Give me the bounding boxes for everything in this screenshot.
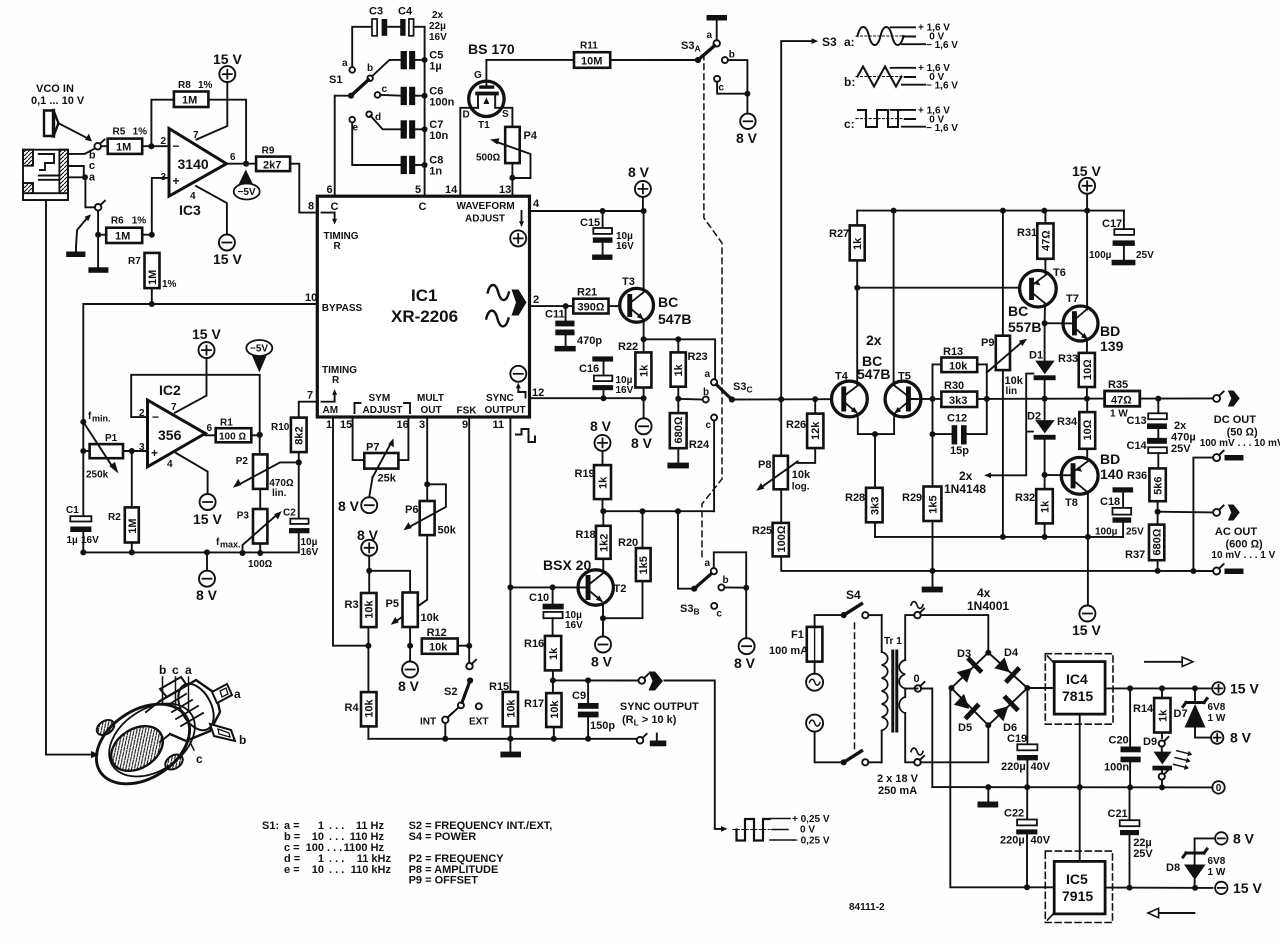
svg-text:c: c: [716, 609, 722, 620]
wire R23 to S3C contact b: [678, 398, 702, 401]
svg-text:1n: 1n: [429, 166, 442, 178]
svg-text:(600 Ω): (600 Ω): [1226, 539, 1264, 551]
svg-text:R15: R15: [489, 681, 509, 693]
svg-text:15 V: 15 V: [193, 511, 222, 527]
terminal ac2: [911, 748, 924, 765]
svg-text:WAVEFORM: WAVEFORM: [457, 201, 515, 212]
-5V marker (IC3): [234, 170, 260, 200]
resistor R9 2k7: [256, 146, 290, 172]
svg-text:557B: 557B: [1008, 319, 1041, 335]
svg-text:16V: 16V: [565, 620, 583, 631]
svg-text:25k: 25k: [378, 473, 397, 485]
svg-text:C17: C17: [1102, 218, 1122, 230]
svg-text:R8: R8: [178, 80, 191, 91]
DC OUT arrow glyph: [1228, 391, 1240, 407]
svg-text:BS 170: BS 170: [468, 41, 515, 57]
resistor R3 10k: [345, 593, 377, 649]
terminal +8V: [1211, 730, 1252, 746]
resistor R32 1k: [1015, 475, 1053, 540]
svg-text:356: 356: [158, 427, 182, 443]
supply -8V (R22): [631, 398, 653, 451]
svg-text:a:: a:: [844, 35, 855, 49]
arrow right (supply): [1145, 657, 1193, 666]
svg-text:1: 1: [326, 419, 332, 431]
wire P1 left: [80, 422, 89, 516]
svg-text:T4: T4: [835, 371, 849, 383]
supply +15V (IC2): [175, 326, 222, 413]
jack connector drawing flange: [82, 688, 209, 801]
svg-text:D5: D5: [958, 722, 972, 734]
svg-text:BD: BD: [1100, 323, 1120, 339]
wire R6 to pin3 node: [142, 178, 169, 238]
svg-text:S1:: S1:: [262, 820, 279, 832]
S1 contact d: [366, 111, 381, 123]
AC OUT arrow glyph: [1228, 505, 1240, 521]
switch S3B: [678, 511, 749, 619]
svg-text:4: 4: [533, 198, 540, 210]
S1 label: [329, 74, 342, 86]
svg-text:R16: R16: [524, 638, 544, 650]
svg-text:6: 6: [327, 184, 333, 196]
svg-text:100 Ω: 100 Ω: [219, 432, 246, 443]
svg-text:c:: c:: [844, 117, 855, 131]
svg-text:FSK: FSK: [457, 406, 478, 417]
fuse F1 100mA: [769, 615, 844, 674]
svg-text:a: a: [185, 663, 192, 677]
supply -15V (IC3): [213, 235, 242, 268]
leader arrow to contact b: [58, 123, 92, 142]
svg-text:1%: 1%: [133, 127, 148, 138]
S1 contact e: [349, 117, 358, 134]
wire IC1 pin2: [530, 303, 574, 309]
supply +15V (IC3): [197, 51, 243, 140]
svg-text:1 W: 1 W: [1208, 713, 1226, 724]
resistor R24 680ohm: [667, 399, 710, 469]
svg-text:1M: 1M: [147, 270, 159, 285]
pot P3 100ohm: [216, 489, 282, 570]
svg-text:1M: 1M: [116, 141, 131, 153]
svg-text:T3: T3: [622, 276, 635, 288]
wire C22 top to 0V rail: [1026, 787, 1028, 819]
wire to P5 top: [369, 571, 410, 593]
svg-text:lin.: lin.: [272, 488, 287, 499]
resistor R20 1k5: [603, 511, 651, 618]
svg-text:D: D: [463, 110, 470, 121]
svg-text:. . .: . . .: [329, 864, 344, 876]
svg-text:C4: C4: [398, 6, 413, 18]
svg-text:− 1,6 V: − 1,6 V: [926, 81, 958, 92]
svg-text:c: c: [89, 160, 95, 172]
svg-text:OUT: OUT: [421, 405, 442, 416]
resistor R25 100ohm: [752, 523, 933, 571]
svg-text:IC3: IC3: [179, 202, 201, 218]
svg-text:C20: C20: [1109, 735, 1129, 747]
svg-text:−5V: −5V: [250, 344, 268, 355]
S3A contact c: [714, 76, 750, 97]
label 2x470u25V: [1171, 420, 1196, 455]
svg-text:15 V: 15 V: [213, 251, 242, 267]
svg-text:100n: 100n: [1104, 762, 1129, 774]
svg-text:D3: D3: [957, 648, 971, 660]
jack wire b: [68, 149, 95, 154]
IC1 timing R arrow bottom: [322, 365, 358, 402]
svg-text:1k: 1k: [852, 237, 864, 250]
supply +15V (amp): [1072, 163, 1101, 211]
svg-text:b:: b:: [844, 75, 855, 89]
svg-text:C22: C22: [1004, 808, 1024, 820]
svg-text:100n: 100n: [429, 97, 454, 109]
svg-text:1k: 1k: [548, 647, 560, 660]
AC OUT terminal: [1213, 506, 1224, 516]
wire T7 collector: [1086, 211, 1088, 310]
capacitor C19 220u40V: [1001, 688, 1051, 787]
svg-text:P6: P6: [405, 504, 418, 516]
wire T3 emitter node: [641, 320, 716, 379]
svg-text:IC1: IC1: [411, 286, 437, 305]
svg-text:1%: 1%: [132, 216, 147, 227]
wire T5 collector: [891, 208, 897, 385]
wire to waveform legend: [781, 38, 818, 399]
wire jack to connector drawing: [45, 200, 47, 755]
IC1 pin right numbers: [532, 198, 544, 399]
svg-text:R18: R18: [576, 529, 596, 541]
svg-text:min.: min.: [92, 414, 111, 424]
IC2 feedback wire: [131, 375, 260, 435]
svg-text:G: G: [474, 70, 482, 81]
regulator IC5 7915: [1045, 851, 1112, 922]
svg-text:C10: C10: [529, 592, 549, 604]
switch S2 INT/EXT: [420, 646, 488, 742]
svg-text:P1: P1: [105, 433, 118, 444]
svg-text:47Ω: 47Ω: [1040, 230, 1052, 251]
svg-text:C: C: [331, 201, 339, 213]
resistor R8 1M: [174, 80, 213, 107]
svg-text:a: a: [89, 171, 96, 183]
svg-text:R10: R10: [271, 422, 290, 433]
svg-text:R: R: [332, 375, 340, 386]
jack connector pin labels: [159, 663, 203, 766]
svg-text:Tr 1: Tr 1: [884, 636, 902, 647]
svg-text:R30: R30: [944, 380, 964, 392]
ground rail (sync area): [368, 738, 636, 740]
svg-text:S3: S3: [822, 35, 837, 49]
capacitor C1 1u16V: [66, 505, 99, 552]
svg-text:8 V: 8 V: [1230, 730, 1252, 746]
DC OUT labels: [1200, 414, 1280, 449]
svg-text:SYNC: SYNC: [486, 393, 514, 404]
arrow to connector drawing: [46, 751, 99, 758]
svg-text:2x: 2x: [432, 10, 444, 21]
label 84111-2: [849, 902, 885, 913]
capacitor C20 100n: [1104, 688, 1141, 787]
jack wire c: [68, 166, 84, 177]
svg-text:16: 16: [397, 419, 409, 431]
IC1 bottom pin numbers: [326, 419, 504, 431]
supply -8V (S3A): [736, 94, 758, 146]
svg-text:1µ: 1µ: [67, 535, 79, 546]
IC1 timing R arrow top: [322, 213, 359, 252]
IC1 output arrow glyph: [512, 290, 527, 316]
svg-text:ADJUST: ADJUST: [363, 405, 403, 416]
svg-text:R33: R33: [1058, 353, 1078, 365]
svg-text:S4: S4: [846, 588, 861, 602]
svg-text:8 V: 8 V: [398, 678, 420, 694]
svg-text:10M: 10M: [581, 56, 602, 68]
svg-text:+: +: [173, 174, 180, 188]
svg-text:−: −: [173, 139, 180, 153]
svg-text:250 mA: 250 mA: [878, 785, 917, 797]
resistor R31 47ohm: [1017, 211, 1054, 274]
svg-text:1 W: 1 W: [1208, 867, 1226, 878]
capacitor C6 100n: [380, 86, 454, 109]
dashed mechanical link S3: [702, 54, 722, 558]
resistor R4 10k: [345, 646, 377, 739]
svg-text:R1: R1: [220, 418, 233, 429]
IC1 XR-2206 box: [317, 196, 529, 417]
wire transformer to bridge top: [921, 615, 989, 653]
svg-text:2x: 2x: [1174, 420, 1187, 432]
wire T8 base: [1045, 474, 1071, 476]
svg-text:P4: P4: [524, 130, 538, 142]
svg-text:C18: C18: [1100, 496, 1120, 508]
svg-text:S2: S2: [444, 686, 457, 698]
transistor T2 BSX20: [543, 557, 626, 605]
svg-text:R22: R22: [618, 341, 638, 353]
jack socket (schematic): [23, 150, 68, 200]
svg-text:2: 2: [533, 294, 539, 306]
svg-text:TIMING: TIMING: [324, 231, 359, 242]
IC1 plus circle pin4: [510, 211, 526, 246]
svg-text:16V: 16V: [81, 535, 99, 546]
resistor R29 1k5: [902, 399, 941, 574]
svg-text:11: 11: [493, 419, 505, 431]
svg-text:P8: P8: [758, 459, 771, 471]
svg-text:4: 4: [167, 459, 173, 470]
diode D6: [991, 695, 1019, 723]
sync output terminal: [639, 674, 649, 684]
svg-text:40V: 40V: [1031, 761, 1051, 773]
IC1 bottom labels: [323, 393, 526, 417]
0V rail: [932, 784, 1212, 790]
svg-text:−: −: [152, 410, 159, 424]
svg-text:IC4: IC4: [1066, 671, 1088, 687]
svg-text:SYM: SYM: [369, 393, 391, 404]
svg-text:110 kHz: 110 kHz: [351, 864, 392, 876]
svg-text:P7: P7: [366, 442, 379, 454]
wire sync to legend: [665, 681, 728, 832]
wire C rail to IC1 pin5: [424, 27, 426, 196]
contact a tick circle: [95, 201, 105, 211]
svg-text:100 mA: 100 mA: [769, 645, 808, 657]
svg-text:C3: C3: [369, 6, 383, 18]
resistor R19 1k: [575, 451, 612, 511]
transistor T6 BC557B: [1008, 267, 1066, 335]
svg-text:84111-2: 84111-2: [849, 902, 885, 913]
resistor R15 10k: [489, 681, 518, 742]
svg-text:R19: R19: [575, 468, 595, 480]
svg-text:T5: T5: [898, 371, 911, 383]
S1 contact c: [375, 84, 388, 98]
wire bridge plus to IC4: [1027, 687, 1054, 689]
transistor T3 BC547B: [620, 276, 692, 327]
svg-text:AM: AM: [323, 405, 339, 416]
-15V rail (amp): [875, 534, 1123, 540]
svg-text:R23: R23: [688, 351, 708, 363]
switch S4: [841, 588, 882, 765]
svg-text:10Ω: 10Ω: [1082, 419, 1094, 440]
capacitor C4 22u: [398, 6, 425, 36]
resistor R23 1k: [671, 339, 708, 402]
resistor R5 1M: [108, 127, 147, 154]
svg-text:C9: C9: [572, 690, 586, 702]
svg-text:R35: R35: [1108, 379, 1128, 391]
svg-text:R7: R7: [128, 256, 141, 267]
resistor R11 10M: [486, 41, 698, 68]
svg-text:BD: BD: [1100, 451, 1120, 467]
svg-text:DC OUT: DC OUT: [1214, 414, 1256, 426]
svg-text:1M: 1M: [115, 231, 130, 243]
svg-text:lin: lin: [1006, 386, 1018, 397]
pot P2 470ohm lin: [233, 435, 299, 499]
wire IC1 pin15: [353, 417, 365, 460]
svg-text:10k: 10k: [364, 698, 376, 717]
svg-text:BYPASS: BYPASS: [322, 303, 363, 314]
svg-text:3k3: 3k3: [869, 497, 881, 515]
wire T3 collector: [643, 211, 645, 291]
jack connector tab a: [212, 684, 241, 703]
svg-text:R13: R13: [943, 346, 963, 358]
svg-text:C21: C21: [1108, 808, 1128, 820]
svg-text:4: 4: [190, 191, 196, 202]
wire T2 emitter to -8V: [591, 605, 613, 669]
IC1 sine glyph 1: [488, 285, 509, 300]
svg-text:1k: 1k: [1157, 709, 1169, 722]
svg-text:C2: C2: [283, 508, 296, 519]
svg-text:1M: 1M: [182, 95, 197, 107]
wire T6 collector node: [1042, 304, 1073, 327]
svg-text:390Ω: 390Ω: [578, 302, 605, 314]
svg-text:547B: 547B: [658, 311, 691, 327]
svg-text:EXT: EXT: [469, 717, 488, 728]
wire T1 source to P4: [495, 108, 512, 127]
diode D1 1N4148: [1029, 323, 1056, 398]
label 2x18V 250mA: [877, 773, 919, 797]
sync output label: [620, 701, 699, 728]
wire IC1 pin11 SYNC: [507, 417, 513, 692]
svg-text:3k3: 3k3: [949, 395, 967, 407]
svg-text:R29: R29: [902, 492, 922, 504]
VCO IN label: [31, 83, 85, 107]
wire R7 to bypass line: [149, 288, 155, 307]
resistor R2 1M: [108, 451, 139, 555]
svg-text:8 V: 8 V: [734, 655, 756, 671]
svg-text:P3: P3: [237, 511, 250, 522]
svg-text:8 V: 8 V: [196, 587, 218, 603]
svg-text:−5V: −5V: [238, 187, 256, 198]
svg-text:R37: R37: [1125, 549, 1145, 561]
svg-text:R17: R17: [524, 698, 544, 710]
svg-text:10k: 10k: [792, 469, 811, 481]
pot P4 500ohm: [476, 127, 538, 178]
diode D2 1N4148: [1027, 399, 1056, 478]
ground below contact-a wire: [88, 235, 108, 273]
svg-text:50k: 50k: [438, 525, 457, 537]
svg-text:C: C: [419, 201, 427, 213]
wire T7 emitter to R33: [1086, 340, 1088, 353]
svg-text:10 mV . . . 1 V: 10 mV . . . 1 V: [1211, 550, 1275, 561]
capacitor C2 10u16V: [283, 459, 319, 558]
svg-text:100µ: 100µ: [1089, 250, 1112, 261]
svg-text:SYNC OUTPUT: SYNC OUTPUT: [620, 701, 699, 713]
svg-text:10: 10: [305, 292, 317, 304]
svg-text:1k2: 1k2: [598, 534, 610, 552]
wire S1 pivot to IC1 pin6: [335, 96, 351, 197]
svg-text:P2: P2: [236, 456, 249, 467]
svg-text:15p: 15p: [950, 445, 969, 457]
svg-text:b: b: [723, 575, 729, 586]
capacitor C11 470p: [545, 306, 602, 351]
supply +8V (T3): [628, 164, 651, 211]
wire IC1 pin9 FSK to R12: [468, 417, 470, 646]
svg-text:R20: R20: [618, 537, 638, 549]
wire IC1 pin4 line: [530, 208, 647, 214]
wire IC4 ground pin: [1079, 714, 1081, 787]
svg-text:T6: T6: [1053, 267, 1066, 279]
svg-text:547B: 547B: [857, 366, 890, 382]
svg-text:15 V: 15 V: [192, 326, 221, 342]
transistor T8 BD140: [1061, 451, 1123, 509]
wire P4 to IC1 pin13: [509, 163, 515, 196]
legend S2 S4 P2 P8 P9: [409, 820, 553, 887]
svg-text:1%: 1%: [198, 80, 213, 91]
svg-text:10Ω: 10Ω: [1082, 359, 1094, 380]
wire 0 tap to ground rail: [921, 689, 932, 788]
S1 contact b: [367, 63, 373, 81]
wire IC1 pin16: [398, 417, 408, 460]
wire T2 collector to R18: [602, 559, 604, 570]
DC output ground terminal: [1193, 451, 1243, 571]
svg-text:D7: D7: [1174, 708, 1188, 720]
svg-text:8 V: 8 V: [631, 435, 653, 451]
svg-text:BC: BC: [1008, 303, 1028, 319]
svg-text:6: 6: [230, 152, 236, 163]
resistor R30 3k3: [933, 380, 987, 407]
svg-text:3: 3: [419, 419, 425, 431]
svg-text:8 V: 8 V: [590, 418, 612, 434]
svg-text:AC OUT: AC OUT: [1215, 526, 1257, 538]
sync legend square wave: [733, 814, 830, 847]
capacitor C8 1n: [352, 122, 443, 177]
svg-text:R: R: [334, 241, 342, 252]
svg-text:a: a: [705, 558, 711, 569]
svg-text:1µ: 1µ: [429, 61, 441, 73]
ground symbol (sync rail): [500, 739, 521, 758]
svg-text:D4: D4: [1004, 647, 1019, 659]
svg-text:15 V: 15 V: [1072, 163, 1101, 179]
-15V output line: [1105, 885, 1213, 891]
svg-text:D8: D8: [1166, 862, 1180, 874]
pot P1 250k: [83, 422, 123, 481]
capacitor C5 1u: [372, 50, 443, 77]
svg-text:T7: T7: [1066, 293, 1079, 305]
svg-text:10k: 10k: [421, 612, 440, 624]
IC3 output node: [227, 161, 257, 167]
wire P1 right to IC2 pin3: [123, 448, 148, 454]
svg-text:220µ: 220µ: [1000, 835, 1025, 847]
IC3 pin4 wire to -15V: [196, 186, 227, 235]
svg-text:S4 = POWER: S4 = POWER: [409, 831, 477, 843]
svg-text:S1: S1: [329, 74, 342, 86]
